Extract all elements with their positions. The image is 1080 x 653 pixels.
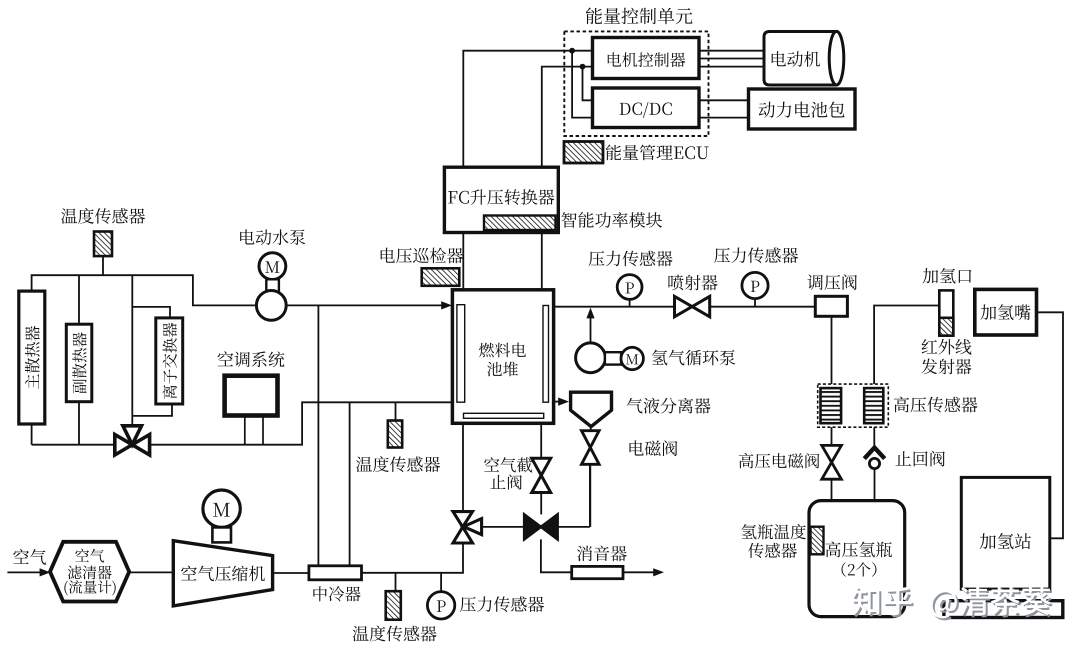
box 加氢站 [961,477,1050,589]
pressure sensor P2 [742,272,768,306]
wire 止回阀 to tank [874,470,876,501]
wire black valve to muffler [541,539,572,572]
box 中冷器 [309,566,362,602]
label 气液分离器 [627,398,711,414]
wire branch dot1 to DC/DC [572,51,592,118]
watermark 知乎@清茶葵 [852,587,1053,621]
air inlet arrow [7,568,50,576]
hydrogen main line [553,306,816,308]
funnel 气液分离器 [571,392,612,426]
label 压力传感器 2 [714,247,798,263]
pressure sensor P bottom [427,592,454,619]
wire 调压阀 down [831,316,833,384]
cylinder 电动机 [764,31,844,85]
hp sensor column 1 [821,388,842,423]
branch temp sensor 2 [395,402,397,420]
branch ion exchanger loop [132,275,172,426]
box 主散热器 [19,291,45,424]
wires DC/DC to battery pack [699,100,749,117]
wire to motor-controller input 1 + junction dot [463,48,592,167]
wire to 高压电磁阀 [831,427,833,445]
box 动力电池包 [749,89,856,129]
hp sensor column 2 [864,388,883,423]
vertical line x318 to intercooler [317,305,319,566]
label 电磁阀 [629,440,677,456]
exhaust arrow [623,568,664,576]
hatched rect 氢瓶温度传感器 [811,527,824,555]
hatched rect 能量管理ECU [564,142,709,164]
check valve 止回阀 [864,448,884,469]
hatched rect temp sensor 3 [386,591,401,620]
wire 空气截止阀 to black valve [540,493,542,515]
motor circle 氢气循环泵 [621,347,643,369]
arrow stack to separator [553,398,570,406]
valve 空气截止阀 [532,458,551,492]
wire 高压电磁阀 to tank [831,479,833,500]
trapezoid 空气压缩机 [173,541,272,606]
valve 电磁阀 [582,431,600,465]
label 红外线发射器 [921,339,971,374]
symbol 加氢口 receptacle [939,290,953,335]
wire funnel to solenoid [590,425,592,431]
hatched rect 智能功率模块 [484,212,662,230]
label 高压电磁阀 [739,453,820,468]
wire 主散热器 bottom [31,424,33,445]
label 喷射器 [668,275,717,291]
branch temp sensor 3 [395,573,397,591]
box FC升压转换器 [444,167,558,232]
box 消音器 [572,546,627,579]
wire 加氢嘴 to station [1037,312,1064,538]
shaft 氢气循环泵 [605,352,621,364]
wire 副散热器 bottom [78,402,80,445]
label 能量控制单元 [586,8,693,25]
air line to valve [362,542,464,573]
label 空气 [13,549,46,565]
dashed box energy control unit [564,31,708,136]
motor circle of 电动水泵 [259,253,286,280]
dashed box 高压传感器 [818,384,889,427]
hydrogen pump up arrow [586,308,594,343]
black bypass valve [524,514,557,539]
wire to motor-controller input 2 + junction dot [542,64,593,168]
label 温度传感器 top-left [61,208,145,224]
pump circle 氢气循环泵 [576,343,606,373]
wire valve to black valve [482,526,525,528]
label 止回阀 [895,451,944,467]
branch 副散热器 top [78,275,80,324]
vertical line x349 to intercooler [349,402,351,566]
coolant line pump to stack + arrow [286,301,452,309]
shaft of 电动水泵 [266,279,279,291]
box 调压阀 [815,296,847,316]
wires FC converter to stack [463,233,542,290]
label 温度传感器 bottom [353,626,437,642]
valve 喷射器 [675,296,710,316]
wire stack to air three-way valve [462,423,464,511]
label 加氢口 [923,268,972,284]
box 加氢嘴 [975,289,1037,335]
hexagon 空气滤清器 [50,542,129,602]
pump circle 电动水泵 [256,291,286,321]
stem 空调系统 [245,416,263,445]
box 空调系统 [225,376,278,416]
shaft compressor [212,527,231,542]
wires motor controller to motor [699,51,764,67]
branch pressure sensor bottom [440,573,442,592]
label 空气截止阀 [484,457,532,490]
valve 高压电磁阀 [822,445,842,479]
hatched rect temp sensor 1 + stem [94,232,112,276]
three-way valve air [453,512,482,543]
box 燃料电池堆 stack [452,290,553,424]
three-way valve coolant [115,426,150,455]
wire filter to compressor [129,571,173,573]
wire 加氢口 line [874,306,939,385]
label 压力传感器 1 [589,251,673,267]
coolant bottom line [32,402,453,444]
box 电机控制器 [593,38,700,79]
label 氢瓶温度传感器 [741,524,806,558]
label 调压阀 [807,274,857,290]
base plate [944,601,1063,618]
box 离子交换器 [156,318,183,404]
wire branch dot2 to DC/DC [583,67,593,101]
label 压力传感器 bottom [460,596,544,612]
hatched rect temp sensor 2 [388,421,402,448]
label 高压传感器 [894,397,978,413]
wire stack to 空气截止阀 [540,423,542,458]
motor circle compressor [203,490,240,527]
label 空调系统 [218,351,285,367]
box DC/DC [593,88,700,128]
box 副散热器 [66,324,92,402]
label 电动水泵 [240,229,305,245]
wire compressor to intercooler [273,572,309,574]
wire black valve to purge line [558,465,590,527]
pressure sensor P1 [617,275,642,307]
label 温度传感器 mid [356,456,440,472]
tank 高压氢瓶 [809,501,905,617]
label+hatched rect 电压巡检器 [381,248,463,286]
coolant top line [32,275,257,305]
label 氢气循环泵 [652,350,736,366]
wire to 止回阀 [873,427,875,446]
wire solenoid down [589,464,591,527]
